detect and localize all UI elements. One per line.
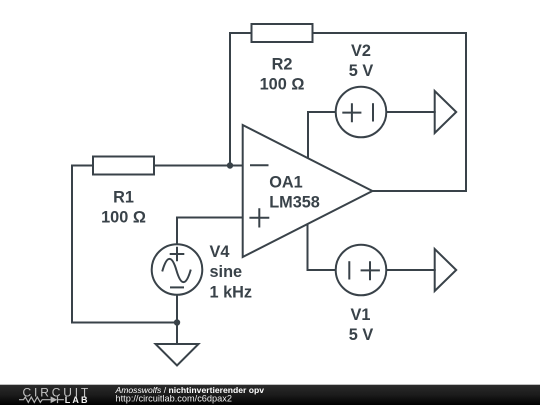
svg-text:V2: V2 <box>351 42 371 60</box>
V1 minus bar <box>348 262 350 278</box>
svg-text:LM358: LM358 <box>269 194 320 212</box>
logo diode triangle <box>51 396 58 403</box>
svg-text:1 kHz: 1 kHz <box>210 283 253 301</box>
wire V4 bottom to ground <box>176 295 178 345</box>
V4 minus sign <box>171 286 183 288</box>
svg-text:V1: V1 <box>351 306 371 324</box>
V2 minus bar <box>372 104 374 120</box>
V4 sine wave <box>163 259 191 282</box>
voltage source V2 circle <box>336 87 387 138</box>
wire op-amp V+ pin to V2 <box>308 112 336 160</box>
op-amp non-inverting input plus sign <box>250 209 268 226</box>
voltage source V4 circle <box>152 244 203 295</box>
svg-text:100 Ω: 100 Ω <box>260 75 305 93</box>
node junction dot at ground net <box>174 319 180 325</box>
svg-text:sine: sine <box>210 263 243 281</box>
wire bottom left: down and to ground node <box>72 166 177 323</box>
svg-text:OA1: OA1 <box>269 174 302 192</box>
wire R1 left lead <box>72 165 93 167</box>
svg-text:5 V: 5 V <box>349 326 374 344</box>
node junction dot at inverting input <box>227 162 233 168</box>
wire R1 right to op-amp inverting input <box>155 165 243 167</box>
svg-text:5 V: 5 V <box>349 62 374 80</box>
wire V2 right to ground arrow <box>387 111 435 113</box>
svg-text:LAB: LAB <box>65 395 90 405</box>
svg-text:http://circuitlab.com/c6dpax2: http://circuitlab.com/c6dpax2 <box>116 394 232 404</box>
wire V1 right to ground arrow <box>386 269 435 271</box>
resistor R1 body <box>93 157 154 175</box>
svg-text:R2: R2 <box>272 55 293 73</box>
ground symbol right top (rotated) <box>435 91 457 133</box>
V4 plus sign <box>171 248 184 261</box>
wire op-amp V- pin to V1 <box>308 224 335 270</box>
wire feedback: op-amp output right and up to top <box>313 33 466 191</box>
ground symbol bottom <box>156 344 199 366</box>
V1 plus sign <box>362 262 379 279</box>
svg-text:R1: R1 <box>113 188 134 206</box>
voltage source V1 circle <box>336 245 387 296</box>
ground symbol right bottom (rotated) <box>435 249 457 291</box>
wire R2 left stub down to inverting node <box>230 33 251 166</box>
svg-text:100 Ω: 100 Ω <box>101 208 146 226</box>
svg-text:V4: V4 <box>210 243 230 261</box>
wire V4 top to op-amp non-inverting input <box>177 218 243 246</box>
V2 plus sign <box>343 104 360 121</box>
resistor R2 body <box>252 24 313 42</box>
logo resistor zigzag and diode <box>19 396 64 403</box>
op-amp OA1 triangle body <box>243 125 373 257</box>
op-amp inverting input minus sign <box>251 164 268 166</box>
